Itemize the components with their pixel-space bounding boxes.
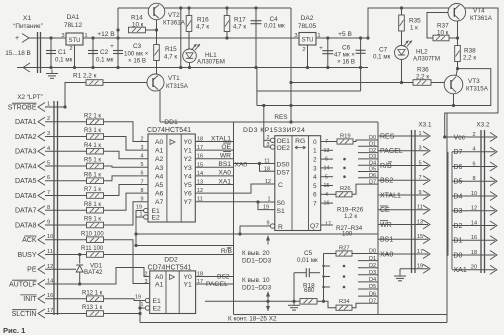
svg-text:D0: D0 (369, 135, 376, 141)
svg-text:DATA7: DATA7 (15, 208, 37, 215)
svg-text:4,7 к: 4,7 к (233, 24, 246, 31)
svg-text:RES: RES (380, 133, 395, 140)
svg-text:12: 12 (471, 206, 477, 212)
svg-text:2: 2 (302, 47, 305, 53)
svg-text:0,1 мк: 0,1 мк (55, 57, 73, 64)
svg-text:5: 5 (313, 183, 317, 190)
svg-text:1 к: 1 к (410, 25, 418, 32)
svg-text:R17: R17 (234, 17, 246, 24)
svg-text:D5: D5 (369, 284, 376, 290)
svg-text:+: + (110, 43, 114, 50)
svg-text:R19: R19 (340, 134, 351, 140)
svg-text:PE: PE (27, 267, 37, 274)
svg-text:Y6: Y6 (184, 191, 193, 198)
svg-text:2,2 к: 2,2 к (463, 55, 476, 62)
svg-text:DATA8: DATA8 (15, 222, 37, 229)
svg-text:WR: WR (220, 153, 231, 160)
svg-text:D4: D4 (369, 160, 376, 166)
svg-text:RES: RES (274, 114, 287, 121)
svg-text:9: 9 (141, 197, 144, 203)
svg-text:DATA4: DATA4 (15, 163, 37, 170)
svg-text:C5: C5 (304, 250, 313, 257)
svg-text:XTAL1: XTAL1 (211, 135, 231, 142)
svg-text:R/B: R/B (221, 248, 233, 255)
svg-text:6: 6 (472, 161, 475, 167)
svg-text:SLCTIN: SLCTIN (12, 311, 37, 318)
svg-text:R1 2,2 к: R1 2,2 к (73, 73, 97, 80)
svg-text:4: 4 (313, 174, 317, 181)
svg-text:К выв. 20: К выв. 20 (242, 250, 270, 257)
svg-text:3: 3 (141, 145, 144, 151)
svg-text:C6: C6 (342, 45, 351, 52)
svg-text:R27: R27 (339, 246, 350, 252)
svg-text:7: 7 (325, 139, 328, 145)
svg-text:A1: A1 (155, 282, 164, 289)
svg-text:+5 В: +5 В (338, 31, 352, 38)
svg-text:PAGEL: PAGEL (380, 148, 403, 155)
svg-text:К выв. 10: К выв. 10 (242, 277, 270, 284)
svg-text:19: 19 (136, 205, 142, 211)
svg-text:КТ361А: КТ361А (163, 20, 186, 27)
svg-text:BS2: BS2 (380, 178, 393, 185)
svg-text:XA1: XA1 (218, 178, 231, 185)
svg-text:BAT42: BAT42 (84, 269, 103, 276)
svg-text:D1: D1 (454, 238, 463, 245)
svg-text:A1: A1 (155, 148, 164, 155)
svg-text:E2: E2 (153, 306, 162, 313)
svg-text:BUSY: BUSY (17, 252, 36, 259)
svg-text:Y0: Y0 (184, 274, 193, 281)
svg-text:D7: D7 (369, 179, 376, 185)
svg-text:XA0: XA0 (235, 162, 248, 169)
svg-text:+: + (15, 35, 19, 42)
svg-text:9: 9 (418, 190, 421, 196)
svg-text:D6: D6 (454, 164, 463, 171)
svg-text:1: 1 (84, 33, 87, 39)
svg-text:WR: WR (380, 222, 392, 229)
svg-text:OE: OE (221, 144, 231, 151)
svg-text:19: 19 (135, 295, 141, 301)
svg-text:D5: D5 (454, 179, 463, 186)
svg-text:R38: R38 (464, 48, 476, 55)
svg-text:20: 20 (471, 265, 477, 271)
svg-text:STU: STU (302, 38, 314, 44)
svg-text:3: 3 (61, 33, 64, 39)
svg-text:DD3 КР1533ИР24: DD3 КР1533ИР24 (243, 127, 305, 134)
svg-text:ACK: ACK (22, 237, 37, 244)
svg-text:R12 1 к: R12 1 к (82, 290, 103, 296)
svg-text:R15: R15 (165, 46, 177, 53)
svg-text:BS2: BS2 (217, 274, 230, 281)
svg-text:17: 17 (417, 249, 423, 255)
svg-text:680: 680 (304, 287, 315, 294)
svg-text:R34: R34 (339, 299, 350, 305)
svg-text:“Питание”: “Питание” (13, 23, 42, 30)
svg-text:5: 5 (325, 174, 328, 180)
svg-text:R8 1 к: R8 1 к (84, 202, 101, 208)
svg-text:D6: D6 (369, 173, 376, 179)
svg-text:R11 100: R11 100 (81, 246, 104, 252)
svg-text:D0: D0 (369, 249, 376, 255)
svg-text:16: 16 (324, 201, 330, 207)
svg-text:Y0: Y0 (184, 139, 193, 146)
svg-text:R16: R16 (197, 17, 209, 24)
svg-text:11: 11 (417, 205, 423, 211)
svg-text:14: 14 (324, 166, 330, 172)
svg-text:Q7: Q7 (310, 223, 319, 230)
svg-text:BS1: BS1 (380, 237, 393, 244)
svg-text:1: 1 (317, 33, 320, 39)
svg-text:К конт. 18–25 X2: К конт. 18–25 X2 (228, 316, 277, 323)
svg-text:4: 4 (141, 154, 144, 160)
svg-text:12: 12 (265, 179, 271, 185)
svg-text:STU: STU (69, 38, 81, 44)
svg-text:15: 15 (324, 183, 330, 189)
svg-text:17: 17 (325, 221, 331, 227)
svg-text:4: 4 (325, 192, 328, 198)
svg-text:CE: CE (380, 207, 390, 214)
svg-text:Y2: Y2 (184, 156, 193, 163)
svg-text:47 мк ×: 47 мк × (334, 52, 355, 59)
svg-text:D3: D3 (369, 154, 376, 160)
svg-text:4: 4 (472, 147, 475, 153)
svg-text:DATA6: DATA6 (15, 193, 37, 200)
svg-text:R3 1 к: R3 1 к (84, 128, 101, 134)
svg-text:DATA3: DATA3 (15, 149, 37, 156)
svg-text:R35: R35 (409, 18, 421, 25)
svg-text:1,2 к: 1,2 к (344, 213, 357, 220)
svg-text:R6 1 к: R6 1 к (84, 172, 101, 178)
svg-text:DS0: DS0 (277, 162, 290, 169)
svg-text:R2 1 к: R2 1 к (84, 114, 101, 120)
svg-text:Y1: Y1 (184, 148, 193, 155)
svg-text:A4: A4 (155, 173, 164, 180)
svg-text:+12 В: +12 В (97, 31, 115, 38)
svg-text:10 к: 10 к (437, 29, 449, 36)
svg-text:X2 “LPT”: X2 “LPT” (17, 94, 43, 101)
svg-text:VT4: VT4 (473, 8, 485, 15)
svg-text:DA2: DA2 (301, 15, 314, 22)
svg-text:7: 7 (418, 175, 421, 181)
svg-text:5: 5 (141, 162, 144, 168)
svg-text:8: 8 (472, 176, 475, 182)
svg-text:3: 3 (294, 33, 297, 39)
svg-text:DD1–DD3: DD1–DD3 (242, 258, 272, 265)
svg-text:C3: C3 (133, 43, 142, 50)
svg-text:D5: D5 (369, 167, 376, 173)
svg-text:R: R (278, 224, 283, 231)
svg-text:4,7 к: 4,7 к (164, 54, 177, 61)
svg-text:E2: E2 (152, 215, 161, 222)
svg-text:D6: D6 (369, 291, 376, 297)
svg-text:3: 3 (313, 165, 317, 172)
svg-text:5: 5 (418, 160, 421, 166)
svg-text:CD74HCT541: CD74HCT541 (148, 264, 192, 271)
svg-text:D4: D4 (369, 277, 376, 283)
svg-text:R10 100: R10 100 (81, 231, 104, 237)
svg-text:DATA5: DATA5 (15, 178, 37, 185)
svg-text:6: 6 (325, 157, 328, 163)
svg-text:VT1: VT1 (168, 75, 180, 82)
svg-text:CD74HCT541: CD74HCT541 (147, 127, 191, 134)
svg-text:D2: D2 (369, 148, 376, 154)
svg-text:Y5: Y5 (184, 182, 193, 189)
svg-text:VT2: VT2 (168, 12, 180, 19)
svg-text:D1: D1 (369, 256, 376, 262)
svg-text:19: 19 (263, 204, 269, 210)
svg-text:Y7: Y7 (184, 199, 193, 206)
svg-text:10 к: 10 к (132, 22, 144, 29)
svg-text:1: 1 (313, 148, 317, 155)
svg-text:D1: D1 (369, 142, 376, 148)
svg-text:КТ315А: КТ315А (466, 86, 489, 93)
svg-text:R/B: R/B (380, 163, 392, 170)
svg-text:D2: D2 (454, 223, 463, 230)
svg-text:Vcc: Vcc (454, 134, 466, 141)
svg-text:STROBE: STROBE (8, 104, 37, 111)
svg-text:0,1 мк: 0,1 мк (373, 54, 391, 61)
svg-text:14: 14 (471, 220, 477, 226)
svg-text:A3: A3 (155, 165, 164, 172)
svg-text:2: 2 (313, 157, 317, 164)
svg-text:2: 2 (472, 132, 475, 138)
svg-text:A2: A2 (155, 156, 164, 163)
svg-text:КТ315А: КТ315А (166, 83, 189, 90)
svg-text:XTAL1: XTAL1 (380, 192, 401, 199)
svg-text:X3.2: X3.2 (476, 122, 490, 129)
svg-text:16: 16 (471, 235, 477, 241)
svg-text:R7 1 к: R7 1 к (84, 187, 101, 193)
svg-text:× 16 В: × 16 В (337, 59, 355, 66)
svg-text:XA0: XA0 (218, 170, 231, 177)
svg-text:C7: C7 (379, 47, 388, 54)
svg-text:C1: C1 (58, 49, 67, 56)
svg-text:D3: D3 (454, 208, 463, 215)
svg-text:R9 1 к: R9 1 к (84, 217, 101, 223)
svg-text:DATA1: DATA1 (15, 119, 37, 126)
svg-text:D7: D7 (369, 298, 376, 304)
svg-text:DD1–DD3: DD1–DD3 (242, 285, 272, 292)
svg-text:R36: R36 (417, 67, 429, 74)
svg-text:100 мк ×: 100 мк × (124, 51, 149, 58)
svg-text:АЛ307ГМ: АЛ307ГМ (413, 56, 440, 63)
svg-text:Y1: Y1 (184, 282, 193, 289)
svg-text:D4: D4 (454, 193, 463, 200)
svg-text:R4 1 к: R4 1 к (84, 143, 101, 149)
svg-text:X1: X1 (23, 15, 32, 22)
svg-text:2: 2 (145, 272, 148, 278)
svg-text:0: 0 (313, 139, 317, 146)
svg-text:D0: D0 (454, 252, 463, 259)
svg-text:C: C (278, 182, 283, 189)
svg-text:8: 8 (141, 188, 144, 194)
svg-text:1: 1 (268, 197, 271, 203)
svg-text:Y3: Y3 (184, 165, 193, 172)
svg-text:X3.1: X3.1 (418, 122, 432, 129)
svg-text:S1: S1 (277, 208, 285, 215)
svg-text:100: 100 (342, 231, 353, 238)
svg-text:A5: A5 (155, 182, 164, 189)
svg-text:DATA2: DATA2 (15, 134, 37, 141)
svg-text:INIT: INIT (23, 296, 37, 303)
svg-text:7: 7 (313, 201, 317, 208)
svg-text:13: 13 (324, 148, 330, 154)
svg-text:RG: RG (295, 138, 305, 145)
svg-text:AUTOLF: AUTOLF (9, 281, 37, 288)
svg-text:АЛ307БМ: АЛ307БМ (197, 59, 225, 66)
svg-text:A7: A7 (155, 199, 164, 206)
svg-text:2,2 к: 2,2 к (416, 74, 429, 81)
svg-text:0,1 мк: 0,1 мк (96, 57, 114, 64)
svg-text:6: 6 (313, 192, 317, 199)
svg-text:DS7: DS7 (277, 169, 290, 176)
svg-text:XA1: XA1 (454, 267, 467, 274)
svg-text:R5 1 к: R5 1 к (84, 158, 101, 164)
svg-text:2: 2 (47, 116, 50, 122)
svg-text:2: 2 (69, 46, 72, 52)
svg-text:2: 2 (141, 136, 144, 142)
svg-text:R13 1 к: R13 1 к (82, 305, 103, 311)
svg-text:Рис. 1: Рис. 1 (3, 326, 26, 335)
svg-text:78L12: 78L12 (64, 22, 83, 29)
svg-text:DA1: DA1 (67, 14, 80, 21)
svg-text:+: + (319, 45, 323, 52)
svg-text:D7: D7 (454, 149, 463, 156)
svg-text:78L05: 78L05 (298, 23, 317, 30)
svg-text:1: 1 (418, 131, 421, 137)
svg-text:7: 7 (141, 179, 144, 185)
svg-text:КТ361А: КТ361А (470, 15, 493, 22)
svg-text:DD2: DD2 (164, 257, 178, 264)
svg-text:BS1: BS1 (218, 161, 231, 168)
svg-text:10: 10 (471, 191, 477, 197)
svg-text:4,7 к: 4,7 к (196, 24, 209, 31)
svg-text:13: 13 (417, 219, 423, 225)
svg-text:0,01 мк: 0,01 мк (264, 23, 285, 30)
svg-text:PAGEL: PAGEL (206, 281, 228, 288)
svg-text:15: 15 (417, 234, 423, 240)
svg-text:D3: D3 (369, 270, 376, 276)
svg-text:0,01 мк: 0,01 мк (297, 257, 318, 264)
svg-text:A0: A0 (155, 274, 164, 281)
svg-text:E1: E1 (153, 298, 162, 305)
svg-text:R26: R26 (340, 186, 351, 192)
svg-text:D2: D2 (369, 263, 376, 269)
svg-text:A0: A0 (155, 139, 164, 146)
svg-text:OE2: OE2 (277, 145, 291, 152)
svg-text:3: 3 (418, 146, 421, 152)
svg-text:XA0: XA0 (380, 251, 393, 258)
svg-text:A6: A6 (155, 191, 164, 198)
svg-text:HL2: HL2 (416, 49, 428, 56)
svg-text:15...18 В: 15...18 В (5, 50, 31, 57)
svg-text:C2: C2 (100, 49, 109, 56)
svg-text:S0: S0 (277, 200, 285, 207)
svg-text:VT3: VT3 (468, 78, 480, 85)
svg-text:3: 3 (145, 279, 148, 285)
svg-text:Y4: Y4 (184, 173, 193, 180)
svg-text:6: 6 (141, 171, 144, 177)
svg-text:R14: R14 (131, 15, 143, 22)
svg-text:× 16 В: × 16 В (128, 58, 146, 65)
svg-text:18: 18 (471, 250, 477, 256)
